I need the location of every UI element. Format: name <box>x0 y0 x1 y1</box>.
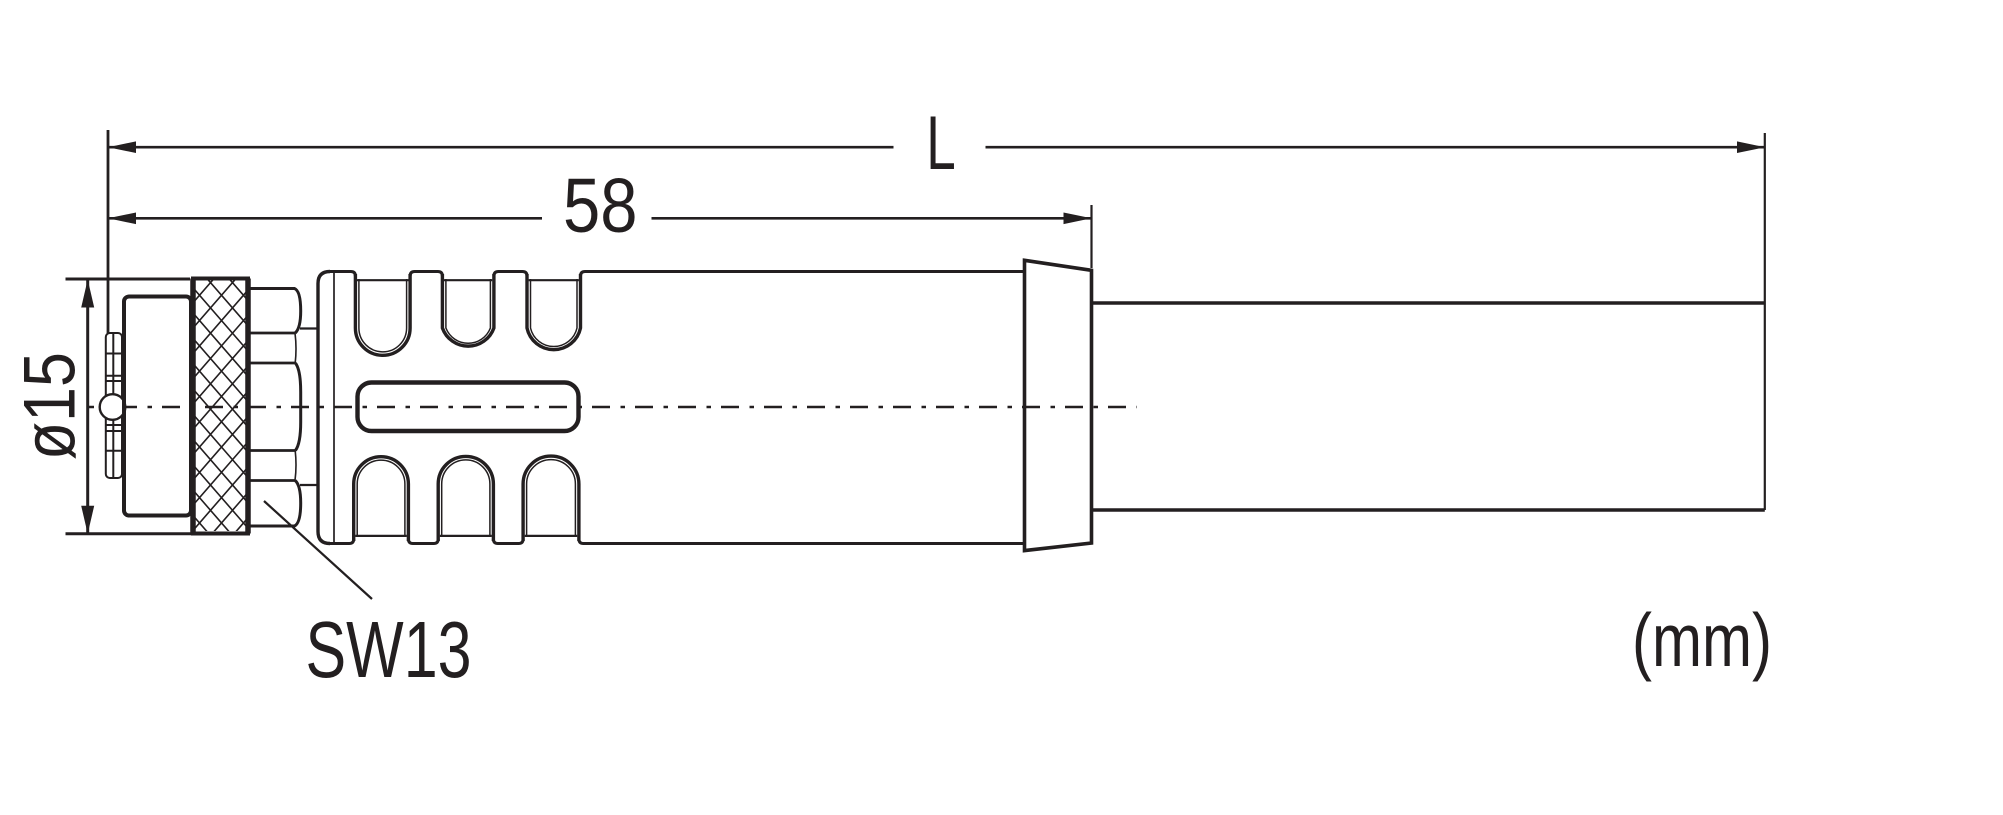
body top edge segments <box>329 272 1024 277</box>
leader line SW13 <box>264 501 372 599</box>
cable boot collar <box>1025 260 1092 550</box>
extension line 58 right <box>1090 205 1092 268</box>
hex flats SW13 <box>250 289 301 527</box>
svg-text:(mm): (mm) <box>1632 598 1772 682</box>
centerline <box>87 406 1137 409</box>
dim L arrows <box>108 141 1765 153</box>
dim 58 arrows <box>108 213 1092 225</box>
extension line left <box>107 130 110 333</box>
extension line L right / cable end <box>1764 133 1766 510</box>
neck cylinder <box>300 329 318 486</box>
svg-text:SW13: SW13 <box>306 605 472 694</box>
knurled coupling ring <box>193 213 249 605</box>
cable <box>1093 303 1765 510</box>
top cutout slots <box>355 274 580 355</box>
svg-text:58: 58 <box>563 163 638 249</box>
dimension dia15 <box>66 279 194 534</box>
bottom cutout slots <box>354 456 579 541</box>
grip body outline <box>318 272 1024 544</box>
svg-text:ø15: ø15 <box>10 352 91 460</box>
connector face contacts <box>106 333 122 478</box>
body bottom edge segments <box>329 539 1024 544</box>
connector face plate <box>124 297 191 516</box>
contact circle <box>100 394 126 420</box>
dimension L <box>108 146 1765 149</box>
central slot <box>358 383 579 432</box>
dimension 58 <box>108 217 1092 220</box>
dia15 arrows <box>81 280 94 534</box>
svg-text:L: L <box>926 101 956 186</box>
